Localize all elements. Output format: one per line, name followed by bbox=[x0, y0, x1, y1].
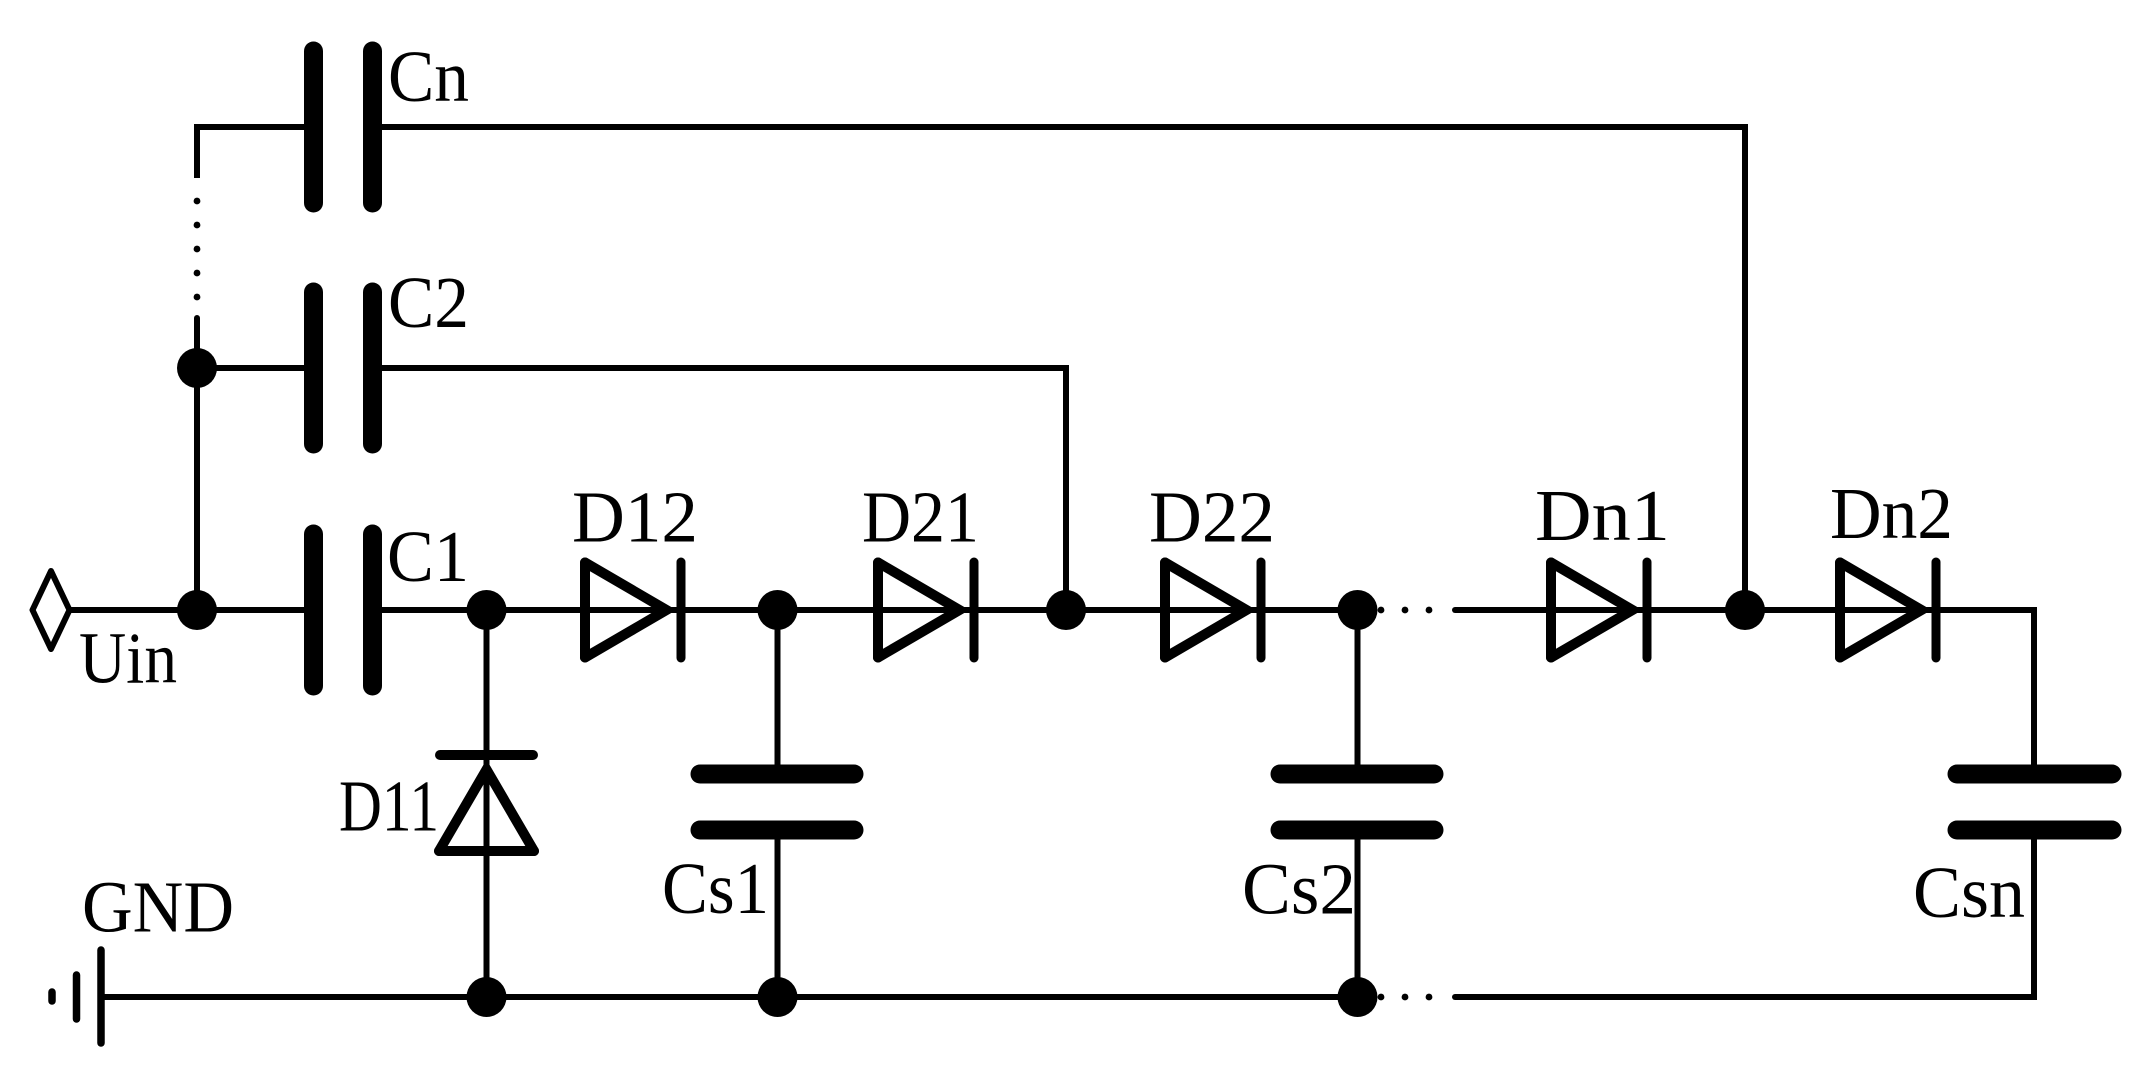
svg-text:C2: C2 bbox=[388, 262, 469, 343]
wire: Cs1 bottom plate down to rail bbox=[775, 834, 781, 997]
capacitor C1 bbox=[314, 534, 373, 686]
svg-text:D22: D22 bbox=[1149, 477, 1275, 558]
capacitor C2 bbox=[314, 292, 373, 444]
dotted continuation vertical bbox=[194, 294, 201, 301]
node E: Dn1/Dn2 junction bbox=[1725, 590, 1765, 630]
diode D12 bbox=[585, 562, 681, 658]
wire: vertical from C2 wire down to node B2 bbox=[1063, 365, 1069, 610]
node A: after C1 bbox=[467, 590, 507, 630]
svg-text:Dn1: Dn1 bbox=[1535, 475, 1670, 556]
wire: solid stub above C2 node bbox=[194, 318, 200, 368]
wire: C2 right plate to corner above D21/D22 node bbox=[366, 365, 1069, 371]
wire: C2 node to C2 left plate bbox=[197, 365, 310, 371]
wire: node A down through D11 to ground rail bbox=[484, 610, 490, 997]
wire: Cn corner to Cn left plate bbox=[194, 124, 310, 130]
ground symbol bbox=[52, 950, 101, 1043]
node: Uin junction bbox=[177, 590, 217, 630]
capacitor Cs1 bbox=[700, 774, 854, 830]
wire: ground rail left segment bbox=[101, 994, 1360, 1000]
svg-text:Uin: Uin bbox=[79, 618, 177, 699]
diode Dn1 bbox=[1551, 562, 1647, 658]
node: rail at Cs1 bbox=[758, 977, 798, 1017]
wire: main line resume through Dn1, Dn2 to output corner bbox=[1455, 607, 2034, 613]
svg-text:D11: D11 bbox=[339, 766, 439, 847]
capacitor Cs2 bbox=[1280, 774, 1434, 830]
wire: vertical from Cn wire down to node E bbox=[1742, 124, 1748, 610]
wire: node C down to Cs2 top plate bbox=[1355, 610, 1361, 770]
svg-text:Cn: Cn bbox=[388, 36, 469, 117]
dotted continuation on main line bbox=[1378, 607, 1385, 614]
wire: solid segment to Cn corner bbox=[194, 127, 200, 178]
node B2: D21/D22 junction bbox=[1046, 590, 1086, 630]
node: rail at Cs2 bbox=[1338, 977, 1378, 1017]
svg-text:Dn2: Dn2 bbox=[1830, 473, 1953, 554]
node: C2 junction bbox=[177, 348, 217, 388]
node C: after D22 bbox=[1338, 590, 1378, 630]
wire: output corner down to Csn top plate bbox=[2031, 607, 2037, 770]
wire: Cs2 bottom plate down to rail bbox=[1355, 834, 1361, 997]
dotted continuation on rail bbox=[1378, 994, 1385, 1001]
diode D22 bbox=[1165, 562, 1261, 658]
svg-text:Cs2: Cs2 bbox=[1242, 849, 1356, 930]
svg-text:D21: D21 bbox=[862, 477, 979, 558]
input port Uin diamond bbox=[33, 571, 70, 649]
svg-text:D12: D12 bbox=[572, 477, 698, 558]
wire: Cn right plate to top-right corner bbox=[366, 124, 1748, 130]
node: rail at D11 bbox=[467, 977, 507, 1017]
node B: D12/D21 junction bbox=[758, 590, 798, 630]
svg-text:Csn: Csn bbox=[1913, 852, 2025, 933]
wire: main line from Uin diamond to C1 left plate bbox=[71, 607, 313, 613]
svg-text:Cs1: Cs1 bbox=[662, 848, 769, 929]
diode D11 (vertical, cathode up) bbox=[439, 755, 534, 851]
svg-text:GND: GND bbox=[82, 867, 234, 948]
diode D21 bbox=[878, 562, 974, 658]
capacitor Cn bbox=[314, 51, 373, 203]
wire: Csn bottom plate down to ground rail bbox=[2031, 834, 2037, 997]
diode Dn2 bbox=[1840, 562, 1936, 658]
svg-text:C1: C1 bbox=[387, 516, 469, 597]
wire: node B down to Cs1 top plate bbox=[775, 610, 781, 770]
capacitor Csn bbox=[1957, 774, 2112, 830]
wire: ground rail right segment bbox=[1455, 994, 2037, 1000]
wire: main line from C1 right plate through D12, D21, D22 to node C bbox=[366, 607, 1360, 613]
wire: vertical feed x=197 from Uin node up to C2 node bbox=[194, 368, 200, 610]
